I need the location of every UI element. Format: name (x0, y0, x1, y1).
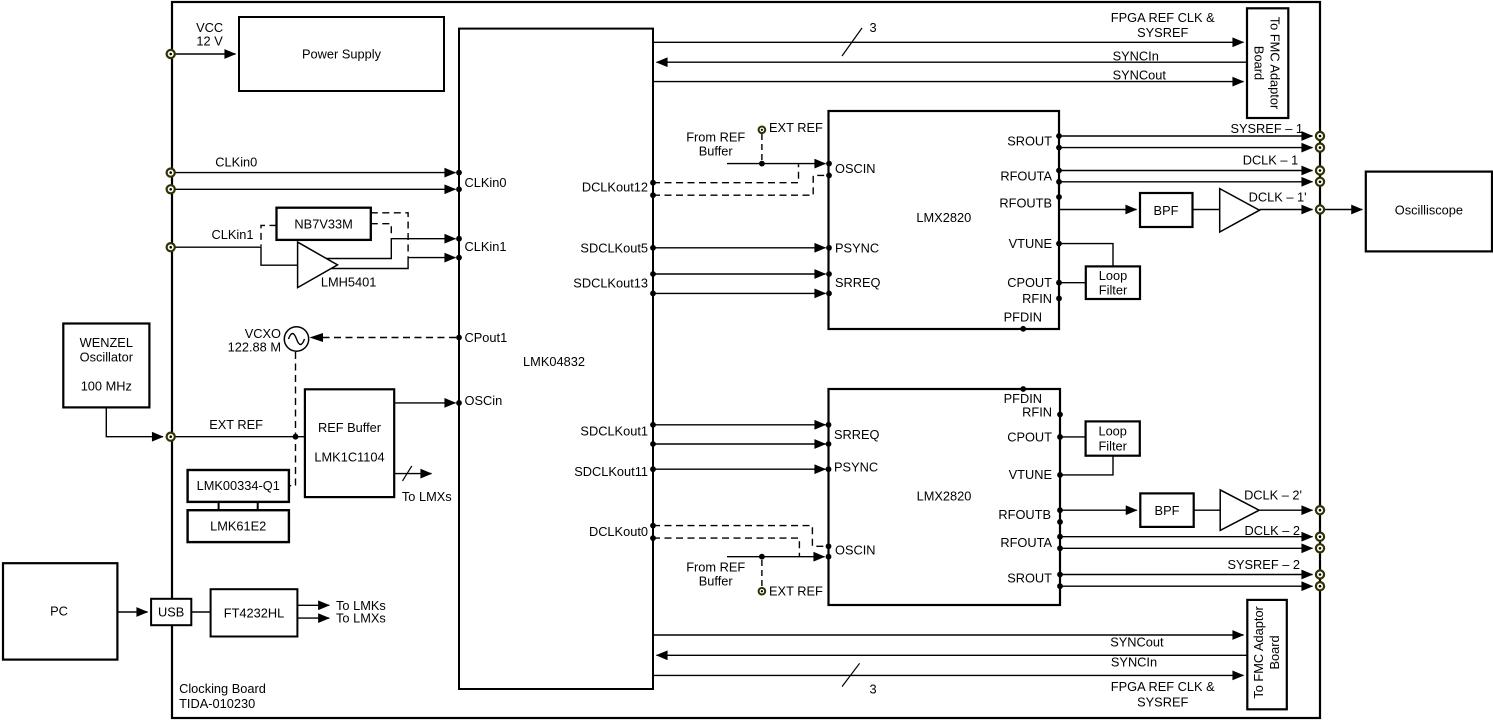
svg-text:LMX2820: LMX2820 (917, 488, 972, 503)
svg-text:To FMC Adaptor: To FMC Adaptor (1251, 605, 1266, 698)
svg-text:CLKin1: CLKin1 (212, 227, 254, 242)
svg-text:SDCLKout13: SDCLKout13 (573, 275, 648, 290)
svg-text:To LMXs: To LMXs (336, 611, 386, 626)
svg-text:DCLK – 2': DCLK – 2' (1244, 487, 1302, 502)
svg-text:SYSREF – 2: SYSREF – 2 (1227, 557, 1300, 572)
svg-text:SDCLKout11: SDCLKout11 (574, 464, 648, 479)
svg-text:From REF: From REF (686, 129, 745, 144)
svg-text:RFIN: RFIN (1022, 291, 1052, 306)
svg-text:DCLK – 1: DCLK – 1 (1243, 153, 1298, 168)
svg-text:CLKin0: CLKin0 (215, 155, 257, 170)
svg-text:RFOUTB: RFOUTB (999, 196, 1052, 211)
svg-text:USB: USB (158, 605, 184, 620)
svg-text:SYSREF: SYSREF (1137, 25, 1188, 40)
svg-text:Buffer: Buffer (699, 573, 734, 588)
svg-text:SROUT: SROUT (1007, 133, 1052, 148)
svg-text:CPout1: CPout1 (465, 330, 508, 345)
svg-text:DCLK – 1': DCLK – 1' (1249, 190, 1307, 205)
svg-text:SYNCout: SYNCout (1113, 68, 1167, 83)
svg-text:122.88 M: 122.88 M (228, 340, 281, 355)
svg-text:To FMC Adaptor: To FMC Adaptor (1267, 17, 1282, 110)
svg-text:SRREQ: SRREQ (835, 275, 881, 290)
svg-text:Oscilliscope: Oscilliscope (1395, 202, 1463, 217)
svg-text:DCLKout12: DCLKout12 (582, 180, 648, 195)
svg-text:RFOUTB: RFOUTB (998, 507, 1051, 522)
svg-text:PC: PC (50, 604, 68, 619)
svg-text:BPF: BPF (1154, 203, 1179, 218)
svg-text:100 MHz: 100 MHz (81, 378, 132, 393)
svg-text:Filter: Filter (1099, 282, 1128, 297)
svg-text:LMX2820: LMX2820 (916, 210, 971, 225)
svg-text:NB7V33M: NB7V33M (294, 216, 352, 231)
svg-text:Clocking Board: Clocking Board (179, 681, 266, 696)
svg-text:OSCIN: OSCIN (835, 542, 876, 557)
svg-text:OSCIN: OSCIN (835, 161, 876, 176)
svg-text:CLKin1: CLKin1 (465, 239, 507, 254)
svg-text:SYNCIn: SYNCIn (1111, 655, 1157, 670)
svg-text:Board: Board (1252, 46, 1267, 80)
svg-text:3: 3 (869, 20, 876, 35)
svg-text:Buffer: Buffer (699, 143, 734, 158)
svg-text:PSYNC: PSYNC (834, 460, 878, 475)
svg-text:SYNCout: SYNCout (1110, 635, 1164, 650)
svg-text:LMK61E2: LMK61E2 (210, 519, 266, 534)
svg-text:SDCLKout5: SDCLKout5 (580, 240, 648, 255)
svg-text:SYSREF: SYSREF (1137, 694, 1188, 709)
svg-text:SYSREF – 1: SYSREF – 1 (1230, 121, 1303, 136)
svg-text:EXT REF: EXT REF (769, 583, 823, 598)
svg-text:LMK00334-Q1: LMK00334-Q1 (197, 478, 280, 493)
svg-text:From REF: From REF (686, 559, 745, 574)
svg-text:BPF: BPF (1155, 503, 1180, 518)
svg-text:SRREQ: SRREQ (834, 427, 880, 442)
svg-text:VTUNE: VTUNE (1009, 236, 1052, 251)
svg-text:EXT REF: EXT REF (769, 120, 823, 135)
svg-text:OSCin: OSCin (465, 393, 503, 408)
svg-text:SROUT: SROUT (1007, 571, 1052, 586)
svg-text:WENZEL: WENZEL (80, 335, 133, 350)
svg-text:RFOUTA: RFOUTA (1000, 535, 1052, 550)
svg-text:Oscillator: Oscillator (80, 349, 134, 364)
svg-text:PFDIN: PFDIN (1004, 310, 1042, 325)
svg-text:CPOUT: CPOUT (1007, 429, 1052, 444)
svg-text:Filter: Filter (1098, 439, 1127, 454)
svg-text:SYNCIn: SYNCIn (1113, 48, 1159, 63)
svg-text:RFIN: RFIN (1022, 404, 1052, 419)
svg-text:DCLK – 2: DCLK – 2 (1245, 523, 1300, 538)
svg-text:LMK1C1104: LMK1C1104 (314, 450, 384, 465)
svg-text:CPOUT: CPOUT (1007, 275, 1052, 290)
svg-text:PSYNC: PSYNC (835, 240, 879, 255)
svg-text:Loop: Loop (1098, 423, 1126, 438)
svg-text:RFOUTA: RFOUTA (1000, 168, 1052, 183)
svg-text:12 V: 12 V (196, 33, 223, 48)
svg-text:Power Supply: Power Supply (302, 46, 382, 61)
svg-text:FPGA REF CLK &: FPGA REF CLK & (1111, 679, 1215, 694)
svg-text:FPGA REF CLK &: FPGA REF CLK & (1111, 10, 1215, 25)
svg-text:TIDA-010230: TIDA-010230 (179, 696, 255, 711)
svg-text:Loop: Loop (1099, 268, 1127, 283)
svg-text:VTUNE: VTUNE (1009, 467, 1052, 482)
svg-text:SDCLKout1: SDCLKout1 (580, 424, 648, 439)
svg-text:Board: Board (1267, 635, 1282, 669)
svg-text:FT4232HL: FT4232HL (224, 605, 284, 620)
svg-text:EXT REF: EXT REF (209, 417, 263, 432)
svg-text:LMK04832: LMK04832 (523, 354, 585, 369)
svg-text:3: 3 (869, 681, 876, 696)
svg-text:CLKin0: CLKin0 (465, 175, 507, 190)
svg-text:DCLKout0: DCLKout0 (589, 524, 648, 539)
svg-text:To LMXs: To LMXs (402, 489, 452, 504)
svg-text:REF Buffer: REF Buffer (318, 420, 382, 435)
svg-text:LMH5401: LMH5401 (321, 275, 377, 290)
